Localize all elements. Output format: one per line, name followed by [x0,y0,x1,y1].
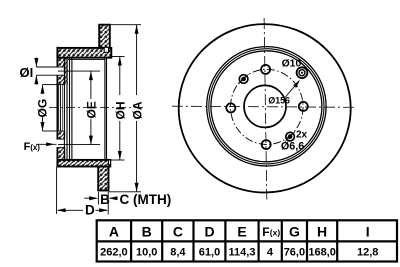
svg-text:D: D [85,202,95,217]
svg-text:76,0: 76,0 [284,247,305,259]
svg-text:(x): (x) [270,228,281,238]
svg-text:2x: 2x [296,129,308,140]
svg-text:Ø10: Ø10 [282,59,302,70]
svg-text:A: A [109,223,119,239]
svg-text:10,0: 10,0 [136,247,157,259]
svg-text:D: D [204,223,214,239]
svg-text:Ø6,6: Ø6,6 [281,141,304,153]
svg-text:168,0: 168,0 [308,247,336,259]
svg-text:8,4: 8,4 [170,247,186,259]
svg-text:ØE: ØE [85,101,99,118]
svg-text:ØA: ØA [130,101,144,119]
svg-text:(x): (x) [30,143,40,152]
svg-text:I: I [366,223,370,239]
svg-text:4: 4 [267,247,274,259]
svg-text:B: B [142,223,152,239]
svg-text:ØI: ØI [20,65,34,80]
svg-text:ØG: ØG [36,99,50,118]
svg-text:114,3: 114,3 [229,247,256,259]
svg-text:F: F [262,225,269,239]
svg-text:262,0: 262,0 [100,247,128,259]
svg-text:B: B [100,192,110,207]
svg-text:C: C [173,223,183,239]
svg-text:E: E [237,223,246,239]
svg-text:12,8: 12,8 [357,247,378,259]
svg-text:H: H [317,223,327,239]
svg-text:G: G [289,223,300,239]
svg-text:61,0: 61,0 [199,247,220,259]
svg-text:C (MTH): C (MTH) [120,192,172,207]
svg-text:ØH: ØH [114,102,128,120]
svg-text:Ø156: Ø156 [268,95,290,105]
